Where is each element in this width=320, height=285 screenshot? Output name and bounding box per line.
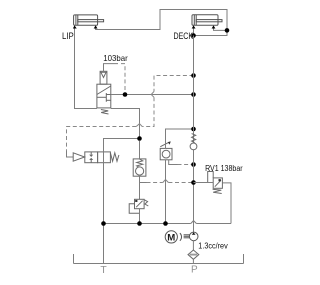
bypass elbow of flow regulator: [169, 160, 178, 165]
pilot actuator triangle: [73, 153, 84, 161]
pump: [189, 232, 198, 241]
node check branch tee: [137, 136, 142, 141]
dashed bypass to main line: [178, 164, 194, 166]
wire flow regulator down to T line: [165, 160, 167, 224]
wire check branch to 2/2 valve top: [104, 139, 140, 152]
coupling: [180, 233, 190, 241]
main pressure line vertical: [193, 36, 195, 234]
wire main to flow regulator: [166, 129, 194, 148]
pilot dashed line from main line to 2/2 valve actuator: [67, 76, 194, 152]
wire branch through check: [139, 141, 141, 159]
wire pump to filter: [192, 241, 194, 250]
node T line junctions: [101, 221, 106, 226]
relief valve lower: [129, 199, 148, 213]
check valve with spring on branch: [133, 159, 146, 176]
wire DECK rod-end to series node: [214, 29, 228, 31]
wire LIP rod-end series line over the top to DECK: [96, 10, 227, 31]
flow regulator: [160, 142, 172, 160]
adjustment arrow head: [168, 141, 171, 144]
pilot dashed from check outlet to RV1 node: [140, 182, 147, 184]
svg-text:1.3cc/rev: 1.3cc/rev: [198, 242, 227, 251]
motor M: [165, 231, 177, 243]
pilot dashed drop to output node: [121, 64, 125, 95]
wire DECK blind port down: [193, 29, 195, 36]
node flow regulator tee: [191, 127, 196, 132]
filter: [188, 250, 199, 259]
pilot jog over output line: [151, 92, 154, 98]
spring of 103bar valve: [101, 110, 109, 115]
wire RV1 outlet to T line: [222, 183, 231, 224]
wire series node down to DECK node: [194, 30, 228, 35]
LIP rod-end port marker: [94, 25, 98, 28]
wire RV1 inlet: [194, 182, 214, 184]
wire relief to T line: [139, 209, 141, 224]
svg-text:103bar: 103bar: [103, 53, 128, 63]
DECK rod-end port marker: [212, 25, 216, 28]
cylinder LIP: [74, 15, 104, 25]
svg-text:P: P: [191, 265, 198, 276]
node pilot junction on output: [123, 92, 128, 97]
node pilot tee on main line: [191, 73, 196, 78]
node bypass tee: [191, 162, 196, 167]
pilot jog over check branch line: [136, 124, 142, 127]
T return line: [104, 223, 191, 225]
valve 103bar sequence valve body: [97, 71, 111, 108]
relief valve RV1: [208, 172, 223, 194]
check arrows in 2/2 valve: [89, 155, 93, 157]
tank: [74, 254, 244, 264]
DECK blind-end port marker: [192, 25, 196, 28]
LIP blind-end port marker: [73, 25, 77, 28]
wire filter to tank: [192, 259, 194, 263]
T line jog over pump line: [191, 221, 197, 224]
node series junction: [225, 28, 230, 33]
spring of 2/2 valve: [110, 153, 119, 161]
svg-text:DECK: DECK: [174, 31, 194, 41]
wire pilot to actuator triangle: [67, 151, 74, 157]
cylinder DECK: [192, 15, 222, 26]
pilot jog over flow control line: [163, 180, 169, 183]
check valve on main line: [192, 134, 196, 143]
pressure setting dot of relief: [135, 200, 137, 202]
node output tee on main line: [191, 92, 196, 97]
svg-text:T: T: [100, 265, 107, 276]
wire LIP blind line down to 103bar valve: [75, 29, 97, 109]
wire through 2/2 valve down to T line: [103, 152, 105, 264]
wire 103bar bottom port to check branch: [111, 109, 140, 139]
node RV1 inlet tee: [191, 180, 196, 185]
valve 2/2 pilot operated: [85, 152, 111, 163]
wire 103bar output to main line: [111, 94, 194, 96]
svg-text:M: M: [167, 232, 175, 243]
pilot line of 103bar valve: [104, 64, 119, 72]
node DECK junction: [191, 33, 196, 38]
svg-text:LIP: LIP: [62, 31, 74, 41]
pressure setting dot of RV1: [219, 179, 221, 181]
